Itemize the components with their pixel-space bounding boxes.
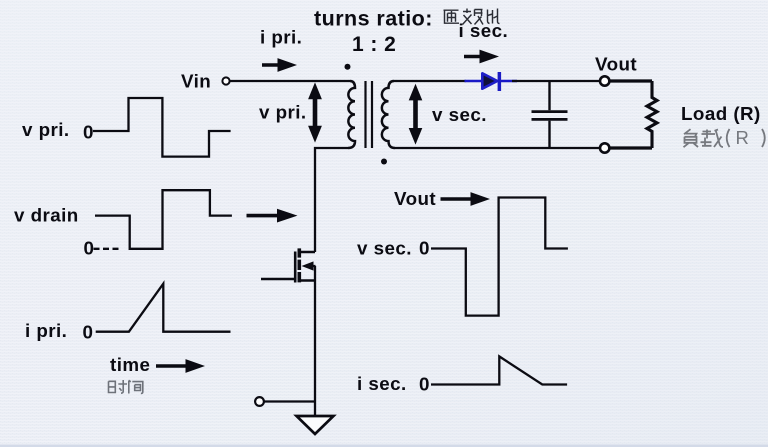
svg-text:i pri.: i pri.: [25, 320, 67, 341]
svg-text:v pri.: v pri.: [22, 119, 70, 140]
capacitor C1: [532, 81, 568, 148]
svg-text:0: 0: [83, 122, 94, 143]
drain connect: [299, 251, 315, 254]
svg-text:i sec.: i sec.: [357, 373, 407, 394]
svg-text:0: 0: [83, 322, 94, 343]
label: 时间 (time CJK, gray): [109, 380, 143, 394]
arrow: Vout points to waveform: [441, 192, 491, 206]
diode D1 (blue): [465, 72, 518, 91]
svg-text:R: R: [736, 127, 749, 148]
svg-text:1 : 2: 1 : 2: [352, 33, 396, 56]
dot: primary polarity: [345, 64, 351, 70]
wire: Vin to transformer primary top: [230, 80, 350, 82]
svg-text:v sec.: v sec.: [357, 238, 412, 259]
node: bottom-left terminal circle: [255, 397, 264, 406]
transformer T1 secondary winding: [382, 81, 395, 148]
svg-text:i pri.: i pri.: [260, 27, 302, 48]
arrow: v sec. double-headed: [409, 84, 423, 145]
resistor Load (R): [647, 81, 657, 148]
MOSFET Q1: [261, 248, 316, 282]
svg-text:Load (R): Load (R): [681, 103, 761, 124]
gate bar: [294, 252, 297, 283]
svg-text:v pri.: v pri.: [259, 102, 307, 123]
transformer T1 primary winding: [348, 81, 355, 148]
svg-text:Vout: Vout: [394, 188, 436, 209]
svg-text:0: 0: [84, 238, 95, 259]
svg-text:Vin: Vin: [181, 71, 211, 92]
gate lead: [261, 278, 294, 280]
node: Vin terminal circle: [222, 77, 229, 84]
node: output bottom terminal circle: [600, 143, 609, 152]
svg-text:v sec.: v sec.: [432, 104, 487, 125]
ground: [297, 416, 334, 434]
svg-text:0: 0: [419, 374, 430, 395]
wire: output bottom rail: [395, 147, 600, 149]
wire: MOSFET source to ground: [314, 266, 316, 415]
arrow: i pri. current direction: [262, 58, 297, 72]
wire: secondary top to diode: [394, 80, 466, 82]
svg-text:turns ratio:: turns ratio:: [314, 7, 433, 31]
arrow: v pri. double-headed: [308, 82, 322, 142]
svg-text:i sec.: i sec.: [459, 20, 509, 41]
svg-text:0: 0: [419, 238, 430, 259]
wire: diode to output corner: [512, 80, 600, 82]
label: 匝数比 (turns ratio CJK): [444, 9, 500, 25]
dot: secondary polarity: [381, 159, 387, 165]
source connect: [299, 279, 315, 282]
body arrow: [309, 265, 316, 267]
label: 负载（R） (load CJK, gray): [684, 127, 765, 148]
svg-text:Vout: Vout: [595, 54, 637, 75]
arrow: time axis: [156, 359, 205, 373]
transformer core: [366, 81, 373, 148]
node: Vout terminal circle: [600, 76, 609, 85]
arrow: i sec. current direction: [464, 50, 499, 64]
channel dashes: [297, 248, 301, 282]
svg-text:time: time: [110, 354, 150, 375]
arrow: v drain to gate: [247, 209, 298, 223]
wire: bottom terminal to source wire: [264, 400, 315, 402]
wire: primary bottom to MOSFET drain: [315, 148, 348, 252]
svg-text:v drain: v drain: [14, 205, 79, 226]
